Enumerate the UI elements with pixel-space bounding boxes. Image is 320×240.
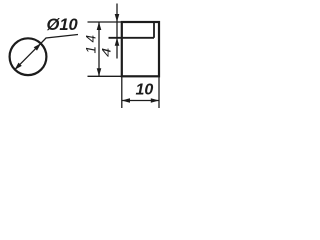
bottom extension line (left of rectangle) [88,75,122,77]
svg-text:4: 4 [101,48,114,57]
arrowhead pointing up at inner line (4 dim) [115,38,120,46]
inner step horizontal line (depth 4) with left extension [109,37,155,39]
svg-text:14: 14 [84,31,99,53]
top extension line (left of rectangle) [88,21,122,23]
inner step vertical line [153,22,155,38]
leader line from circle to label shelf [41,35,78,44]
arrowhead upper-right of diameter line [34,43,41,50]
circle (front view of part, Ø10) [10,38,47,75]
left extension line below rectangle [121,76,123,108]
arrowhead left of 10 [122,98,130,103]
svg-text:10: 10 [136,82,154,99]
right extension line below rectangle [158,76,160,108]
arrowhead pointing down at top edge (4 dim) [115,14,120,22]
arrowhead lower-left of diameter line [15,63,22,70]
arrowhead bottom of 14 [97,68,102,76]
arrowhead top of 14 [97,22,102,30]
rectangle body (section view 10 x 14) [122,22,159,76]
dimension line 4 (vertical, arrows outside) [116,4,118,59]
svg-text:Ø10: Ø10 [47,16,79,34]
dimension line 14 (vertical) [98,22,100,76]
diameter dimension line (45° through circle) [15,43,41,70]
dimension line 10 (horizontal) [122,100,159,102]
arrowhead right of 10 [151,98,159,103]
